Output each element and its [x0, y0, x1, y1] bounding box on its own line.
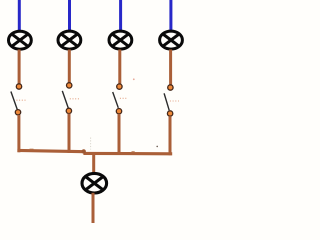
wire switch4 down to bus	[169, 116, 172, 155]
wire lamp L5 to bottom edge (return)	[92, 193, 95, 223]
wire bus tap down to lamp L5	[92, 154, 95, 174]
wire lamp3 to switch3	[118, 50, 121, 85]
wire lamp2 to switch2	[68, 50, 71, 84]
switch S1	[11, 84, 27, 115]
junction blob bus mid	[82, 149, 86, 153]
lamp L4	[160, 31, 183, 49]
speck bump on left bus	[30, 149, 34, 151]
switch S2	[62, 83, 79, 114]
switch S4	[164, 85, 179, 116]
lamp L1	[9, 31, 32, 49]
speck bump on right bus	[132, 151, 135, 152]
wire blue feed 3	[119, 0, 122, 31]
speck artifact near bus	[156, 146, 158, 148]
lamp L5	[82, 173, 107, 193]
wire bus right segment	[83, 152, 172, 156]
switch S3	[113, 84, 127, 114]
faint ghost dotted line above bus tap	[90, 138, 92, 150]
wire lamp1 to switch1	[18, 50, 21, 85]
faint pink speck	[133, 78, 135, 80]
lamp L3	[109, 31, 132, 49]
wire blue feed 1	[18, 0, 21, 31]
wire switch2 down to bus	[68, 114, 71, 153]
wire lamp4 to switch4	[169, 50, 172, 86]
wire switch1 down to bus	[17, 115, 20, 152]
wire bus left segment	[17, 150, 85, 151]
lamp L2	[58, 31, 81, 49]
wire blue feed 4	[169, 0, 172, 31]
wire blue feed 2	[68, 0, 71, 31]
wire switch3 down to bus	[118, 114, 121, 155]
